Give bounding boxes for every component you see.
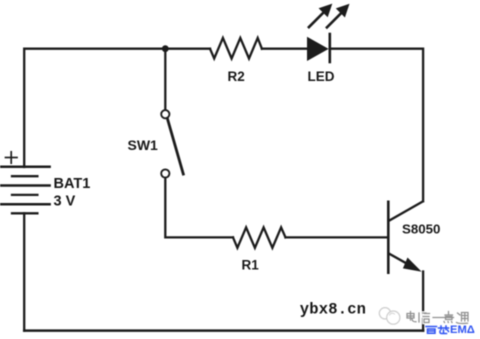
LED light emission arrow 2 [327,4,350,28]
watermark text baixin (百芯 simplified strokes, blue) [426,326,449,334]
wire switch bottom terminal down and right to R1 [165,178,233,237]
svg-text:BAT1: BAT1 [54,176,91,192]
wire R1 to transistor base [286,236,388,238]
resistor R1 [233,227,286,247]
wire junction down to switch top terminal [164,49,166,110]
svg-text:ybx8.cn: ybx8.cn [300,300,366,318]
watermark logo circles [379,308,400,325]
resistor R2 [210,38,262,59]
wire left side and top (battery plus to junction) [24,49,165,167]
node junction at top of switch branch [162,45,169,52]
battery BAT1 plates [1,167,50,214]
svg-text:R1: R1 [242,258,260,273]
transistor Q1 S8050 (NPN) [388,201,423,272]
svg-text:SW1: SW1 [128,137,159,153]
svg-text:S8050: S8050 [402,221,440,236]
wire battery minus down to bottom-left corner [23,213,25,330]
wire LED cathode to top-right corner down to collector [330,49,423,202]
switch SW1 (open SPST) [161,110,183,177]
wire bottom rail [24,329,423,332]
watermark text dianlu yidiantong (电路一点通 simplified strokes) [407,312,468,324]
LED light emission arrow 1 [309,4,332,28]
svg-text:LED: LED [308,69,335,84]
svg-text:3 V: 3 V [54,194,76,210]
wire emitter down right side to bottom-right corner [422,272,424,331]
svg-text:EMΔ: EMΔ [450,324,475,336]
wire junction to R2 [165,48,210,50]
battery plus sign [6,152,18,163]
svg-text:R2: R2 [228,69,245,84]
wire R2 to LED anode [262,48,307,50]
LED diode triangle and cathode bar [307,34,330,62]
